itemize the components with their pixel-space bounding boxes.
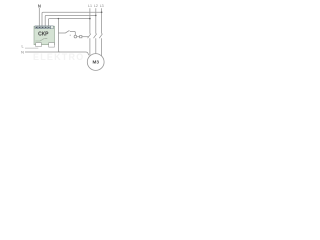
- svg-text:N: N: [38, 3, 41, 8]
- svg-text:N: N: [21, 51, 24, 55]
- svg-text:L3: L3: [100, 4, 104, 8]
- svg-text:L2: L2: [94, 4, 98, 8]
- svg-text:L1: L1: [88, 4, 92, 8]
- svg-text:CKP: CKP: [38, 31, 49, 37]
- svg-text:ELEKTRO: ELEKTRO: [33, 52, 84, 62]
- svg-text:M3: M3: [93, 60, 100, 65]
- svg-text:L: L: [22, 45, 24, 49]
